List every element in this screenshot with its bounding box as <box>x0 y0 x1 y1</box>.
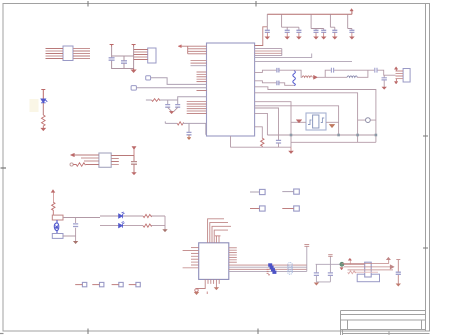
wire reset net2 <box>183 123 206 134</box>
wire R2 to U3 <box>86 164 99 166</box>
capacitor C20 <box>73 224 78 227</box>
wire bus vertical <box>306 247 308 272</box>
LED D1 chain <box>41 90 45 99</box>
ground GND10 <box>314 283 318 285</box>
connector J2 <box>403 69 410 83</box>
frame tick bottom 1 <box>87 329 89 335</box>
resistor R11 <box>348 271 356 274</box>
testpoint TP5 <box>82 282 86 286</box>
wire RC net2 <box>160 97 206 105</box>
wire TP1 <box>250 191 260 193</box>
ground GND12 <box>195 292 199 294</box>
wire C19 stub <box>278 143 280 147</box>
wire R5 to R6 <box>318 76 348 78</box>
wire Y1 left <box>291 121 306 123</box>
resistor R4 <box>177 122 183 125</box>
wire RC top <box>325 70 368 77</box>
wire caps to gnd <box>168 107 178 111</box>
LED D1 <box>41 99 47 103</box>
ground GND6 <box>382 87 386 89</box>
wire TP5 <box>75 284 82 286</box>
capacitor C15 series <box>277 81 279 86</box>
power flag VCC1 <box>110 45 114 47</box>
wire osc row3 <box>348 269 394 271</box>
resistor pack RN1 <box>268 263 276 274</box>
testpoint TP4 <box>294 206 300 211</box>
wire Y1 right <box>326 121 339 123</box>
wire reset net <box>165 121 177 123</box>
connector J1 <box>63 46 73 61</box>
capacitor bank C13 <box>349 30 354 32</box>
wire C2 stub <box>123 56 125 69</box>
capacitor C6 <box>187 132 192 134</box>
resistor R3 <box>152 99 161 102</box>
junction circle U4 gnd <box>195 289 198 292</box>
wire long 92 <box>255 93 358 143</box>
frame tick left <box>1 167 7 169</box>
resistor R9 <box>143 214 152 217</box>
ground GND8 <box>74 241 78 243</box>
wire ETH pair1 <box>255 70 295 72</box>
testpoint TP6 <box>100 282 104 286</box>
IC U4 <box>199 243 229 280</box>
capacitor C19 <box>276 140 281 143</box>
wire U1 left group C <box>197 72 207 82</box>
wire J1 right pins <box>73 49 90 59</box>
power bus VDD top <box>267 11 352 15</box>
wire long 105 <box>255 106 339 135</box>
wire U1 right bundle <box>255 49 282 56</box>
capacitor bank C9 <box>296 30 301 32</box>
frame tick bottom 2 <box>257 329 259 335</box>
wire U1 to bus <box>255 27 268 46</box>
capacitor top stub <box>304 245 309 247</box>
capacitor bank C7 <box>265 30 270 32</box>
capacitor C14 series <box>277 68 279 73</box>
pad Q1 bottom <box>52 234 63 239</box>
wire TP3 <box>250 208 260 210</box>
junction circle A <box>340 262 344 266</box>
wire TP4 <box>282 208 293 210</box>
wire C23 net <box>396 259 400 284</box>
LED D2 <box>119 212 125 218</box>
capacitor bank C12 <box>332 30 337 32</box>
wire U1 left top pair <box>181 46 206 54</box>
wire osc row1 <box>342 258 390 264</box>
wire long 108 <box>255 108 279 140</box>
frame tick right 2 <box>423 247 428 249</box>
wire U1 right 61 <box>255 60 352 62</box>
capacitor C1 <box>109 58 115 60</box>
capacitor C5 <box>175 105 180 108</box>
ground GND9 <box>163 230 167 232</box>
wire long 101 <box>255 102 291 148</box>
wire U3 out3 <box>111 161 119 163</box>
ground GND2 <box>41 128 45 130</box>
stub mark <box>206 292 208 295</box>
capacitor bank C8 <box>285 30 290 32</box>
frame tick top 1 <box>87 1 89 7</box>
testpoint TP7 <box>119 282 123 286</box>
capacitor C22 <box>328 273 333 276</box>
jumper JP1 <box>146 76 151 80</box>
wire LED row2 <box>100 225 165 227</box>
wire LED row1 <box>100 215 165 217</box>
power arrow bus end <box>350 9 353 12</box>
wire TP7 <box>112 284 119 286</box>
wire Q1 out <box>63 217 100 219</box>
wire TP2 <box>282 191 293 193</box>
ground bank G2 <box>285 33 289 39</box>
wire JP2 to U1 <box>136 87 206 89</box>
rail mid 142 <box>291 141 376 143</box>
stub C22 top <box>328 255 332 257</box>
wire C21 C22 net <box>316 257 342 282</box>
capacitor C3 <box>131 162 137 165</box>
port arrow left U1 <box>178 45 181 48</box>
capacitor bank C10 <box>314 30 319 32</box>
wire long 87 <box>255 87 376 143</box>
power flag J2 <box>394 67 397 70</box>
ground bank G1 <box>265 33 269 39</box>
capacitor C17 series <box>375 68 377 73</box>
resistor R6 <box>347 76 357 78</box>
jumper JP2 <box>131 86 136 91</box>
wire cap bank drops <box>267 14 352 30</box>
wire to C17 <box>368 70 396 75</box>
capacitor C21 <box>314 273 319 276</box>
ground GND7 <box>289 147 293 153</box>
resistor R8 <box>52 202 55 215</box>
resistor R7 <box>261 138 264 147</box>
wire RC net <box>146 99 152 101</box>
label smudge <box>30 99 39 112</box>
pad Q1 top <box>52 215 63 220</box>
wire U2 left pins <box>134 50 148 60</box>
rail mid 135 <box>267 134 376 136</box>
resistor R5 <box>302 76 312 78</box>
wire osc row4 <box>354 271 378 273</box>
testpoint TP8 <box>136 282 140 286</box>
ground GND11 <box>396 284 400 286</box>
wire Q1 bottom <box>63 218 76 242</box>
wire U1 left group B <box>191 61 207 66</box>
power stub x350 <box>348 258 351 264</box>
ground Y1 right <box>329 124 335 127</box>
wire U4 bottom pins <box>197 279 220 289</box>
power flag VCC3 <box>132 147 135 156</box>
wire U1 left group E <box>187 102 207 114</box>
wire ETH pair2 <box>255 81 294 86</box>
ground J2 <box>394 82 397 85</box>
wire R6 right <box>357 70 368 77</box>
ground bank G6 <box>333 33 337 39</box>
IC U3 <box>99 153 111 167</box>
wire U1 bottom pin <box>231 127 263 147</box>
ground bank G5 <box>322 33 326 39</box>
wire LED join <box>164 216 166 230</box>
no-connect circle mid <box>366 118 371 123</box>
title block <box>341 311 430 335</box>
wire C1 net <box>112 47 134 69</box>
testpoint TP2 <box>294 189 300 194</box>
resistor pack RN1 stubs <box>267 269 270 275</box>
wire U3 out top <box>111 155 134 157</box>
corner mark <box>0 333 4 335</box>
capacitor C23 <box>396 272 401 274</box>
wire TP8 <box>129 284 136 286</box>
arrow mid <box>313 75 318 79</box>
transistor Q1 arrow <box>55 225 58 228</box>
ferrite pack FB1 <box>288 263 293 275</box>
wire C3 net <box>133 156 135 162</box>
capacitor C4 <box>165 105 170 108</box>
arrow below A <box>340 268 343 271</box>
frame tick top 2 <box>255 1 257 7</box>
wire C3 low <box>133 164 135 172</box>
ground GND1 <box>132 69 136 73</box>
wire U4 right pins <box>229 248 237 262</box>
wire J2 pins <box>396 70 404 82</box>
wire U4 left pins <box>183 248 199 268</box>
wire U3 out2 <box>111 158 119 160</box>
wire osc row2 <box>344 265 394 269</box>
ground GND13 <box>214 288 218 290</box>
resistor R2 <box>73 163 85 167</box>
wire long 113 <box>255 113 268 135</box>
wire J1 left pins <box>46 49 64 59</box>
testpoint TP3 <box>260 206 266 211</box>
wire comp2 vertical <box>133 47 135 69</box>
wire U3 in2 <box>81 157 99 159</box>
wire circle link <box>358 119 376 121</box>
wire L1 top right <box>294 70 302 77</box>
wire U3 in <box>74 154 99 156</box>
rail GND row <box>231 146 292 148</box>
wire U1 left 90 <box>197 90 207 92</box>
ground Y1 left <box>296 120 302 123</box>
inductor L1 <box>293 71 296 86</box>
resistor R10 <box>143 224 152 227</box>
junction dots rail <box>290 134 378 137</box>
transistor Q1 <box>54 220 59 234</box>
frame tick right 1 <box>423 135 428 137</box>
ground GND5 <box>187 138 191 140</box>
IC U2 <box>148 48 156 63</box>
wire U4 top pins <box>208 219 231 243</box>
no-connect circle U3 <box>70 163 73 166</box>
crystal Y1 <box>306 113 326 130</box>
capacitor bank C11 <box>321 30 326 32</box>
power flag VCC2 <box>132 45 136 47</box>
ground bank G4 <box>314 33 318 39</box>
ground GND4 <box>170 111 174 113</box>
resistor R1 <box>42 115 46 128</box>
LED D3 <box>119 222 125 228</box>
ground bank G3 <box>297 33 301 39</box>
wire JP1 to U1 <box>151 78 207 85</box>
oscillator X1 <box>365 262 372 277</box>
IC U1 main MCU <box>207 43 255 136</box>
wire TP6 <box>92 284 99 286</box>
capacitor C2 <box>121 61 127 63</box>
wire D1 <box>42 103 44 115</box>
power flag Q1 <box>51 190 54 203</box>
capacitor C18 <box>382 78 387 80</box>
pad X1 under <box>357 274 379 282</box>
capacitor C16 series <box>331 68 333 73</box>
testpoint TP1 <box>260 189 266 194</box>
wire U1 right 57 <box>255 54 312 58</box>
wire A to osc <box>344 263 365 265</box>
wire C6 low <box>188 135 190 138</box>
power stub U4 <box>215 235 221 237</box>
port arrow IN1 <box>70 153 74 157</box>
wire C18 drop <box>383 75 385 87</box>
wire U4 bus right <box>229 265 307 271</box>
ground bank G7 <box>350 33 354 39</box>
ground GND3 <box>132 173 136 175</box>
